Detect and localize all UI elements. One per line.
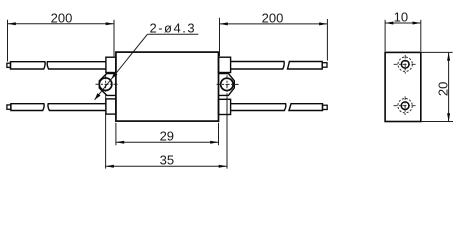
side view upper hole outer circle <box>398 57 412 71</box>
side view lower hole inner circle <box>401 102 409 110</box>
dimension 29: dimension line <box>116 141 219 143</box>
centerline left hole vertical <box>105 75 107 97</box>
dimension 10: arrow left <box>385 22 393 25</box>
svg-text:200: 200 <box>262 11 284 26</box>
side view lower hole centerline vertical <box>404 96 406 115</box>
mounting tab left <box>99 74 116 96</box>
extension line right 35-dim (hole centerline extended) <box>226 97 228 169</box>
extension line left 35-dim (hole centerline extended) <box>105 97 107 169</box>
side view upper hole centerline horizontal <box>394 63 417 65</box>
lead wire top-right segment 2 <box>288 62 323 70</box>
dimension 10: dimension line <box>385 22 421 24</box>
ceramic bushing bottom-right <box>219 99 231 114</box>
leader underline shelf <box>147 33 198 35</box>
dimension 20: arrow bottom <box>447 113 450 121</box>
dimension 10: extension line left <box>384 20 386 52</box>
lead wire top-right segment 1 <box>231 62 285 70</box>
dimension 200 right: dimension line <box>220 23 328 25</box>
side view bottom edge extension to 20-dim <box>421 121 453 123</box>
leader arrowhead at hole edge <box>112 72 118 79</box>
dimension 200 left: extension line left <box>7 20 9 62</box>
dimension 200 right: extension line right <box>326 19 328 61</box>
lead wire bottom-right end cap <box>323 105 328 109</box>
lead wire bottom-left segment 2 <box>48 104 106 111</box>
ceramic bushing top-right <box>219 57 231 72</box>
dimension 200 left: arrow right <box>106 22 114 25</box>
dimension 29: extension line left <box>115 123 117 146</box>
lead wire bottom-left segment 1 <box>11 104 44 111</box>
dimension 29: arrow left <box>116 141 124 144</box>
lead wire bottom-left end cap <box>7 105 11 109</box>
lead wire top-right end cap <box>322 63 327 67</box>
lead wire bottom-right segment 2 <box>289 104 323 111</box>
svg-text:20: 20 <box>435 82 450 96</box>
dimension 200 left: extension line right <box>113 20 115 57</box>
dimension 200 left: arrow left <box>8 22 16 25</box>
svg-text:10: 10 <box>394 9 408 24</box>
leader arrowhead at line end <box>95 93 101 100</box>
dimension 200 left: dimension line <box>8 23 115 25</box>
dimension 200 right: arrow left <box>220 22 228 25</box>
svg-text:200: 200 <box>51 11 73 26</box>
side view upper hole centerline vertical <box>404 55 406 74</box>
dimension 10: arrow right <box>413 22 421 25</box>
ceramic bushing bottom-left <box>106 99 116 114</box>
dimension 200 right: extension line left <box>219 18 221 56</box>
dimension 29: arrow right <box>210 141 218 144</box>
dimension 10: extension line right <box>420 20 422 52</box>
dimension 35: dimension line <box>106 165 227 167</box>
mounting hole right <box>221 78 233 90</box>
svg-text:2-ø4.3: 2-ø4.3 <box>150 20 197 35</box>
dimension 200 right: arrow right <box>319 22 327 25</box>
centerline left hole horizontal <box>96 83 118 85</box>
side view top edge extension to 20-dim <box>421 51 453 53</box>
resistor body <box>116 52 219 121</box>
svg-text:29: 29 <box>160 128 174 143</box>
side view upper hole inner circle <box>401 60 409 68</box>
dimension 20: arrow top <box>447 52 450 60</box>
svg-text:35: 35 <box>160 152 174 167</box>
centerline right hole vertical <box>226 75 228 97</box>
mounting tab right <box>219 74 235 96</box>
side view lower hole outer circle <box>398 99 412 113</box>
lead wire bottom-right segment 1 <box>231 104 286 111</box>
lead wire top-left end cap <box>7 63 11 67</box>
dimension 20: dimension line <box>448 52 450 121</box>
side view lower hole centerline horizontal <box>394 105 417 107</box>
lead wire top-left segment 2 <box>47 62 106 69</box>
ceramic bushing top-left <box>106 57 116 72</box>
side view bracket plate <box>385 52 421 121</box>
centerline right hole horizontal <box>217 83 240 85</box>
dimension 35: arrow left <box>106 165 114 168</box>
lead wire top-left segment 1 <box>11 62 46 69</box>
dimension 29: extension line right <box>218 123 220 146</box>
leader line to hole <box>95 34 148 100</box>
dimension 35: arrow right <box>219 165 227 168</box>
mounting hole left <box>99 78 112 91</box>
